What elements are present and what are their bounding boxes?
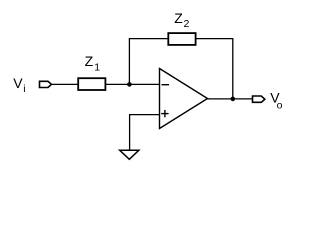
wire: feedback down to output node	[232, 38, 234, 99]
junction: output node	[231, 97, 236, 102]
label Z2	[174, 10, 189, 30]
input terminal Vi	[40, 81, 52, 87]
svg-text:i: i	[23, 83, 25, 95]
wire: inverting node up to feedback branch	[128, 39, 130, 85]
svg-text:2: 2	[184, 18, 190, 30]
label Vi	[13, 75, 25, 95]
wire: op-amp output to Vo terminal	[208, 98, 253, 100]
label Z1	[85, 53, 101, 74]
impedance Z1	[78, 78, 105, 90]
wire: Z2 to feedback right corner	[196, 38, 233, 40]
wire: Z1 to op-amp inverting input	[105, 83, 159, 85]
svg-text:Z: Z	[85, 53, 94, 69]
wire: feedback top, node to Z2	[129, 38, 169, 40]
ground	[120, 150, 139, 159]
wire: Vi terminal to Z1	[52, 83, 79, 85]
inverting input marker (minus)	[162, 84, 170, 86]
svg-text:V: V	[13, 75, 23, 91]
junction: inverting input node	[127, 82, 132, 87]
svg-text:Z: Z	[174, 10, 183, 26]
svg-text:o: o	[277, 99, 283, 111]
op-amp U1	[160, 69, 208, 129]
label Vo	[270, 89, 282, 111]
impedance Z2	[168, 33, 195, 45]
svg-text:1: 1	[94, 62, 100, 74]
non-inverting input marker (plus)	[161, 110, 168, 117]
wire: non-inverting input to ground	[130, 115, 160, 150]
output terminal Vo	[253, 96, 265, 102]
